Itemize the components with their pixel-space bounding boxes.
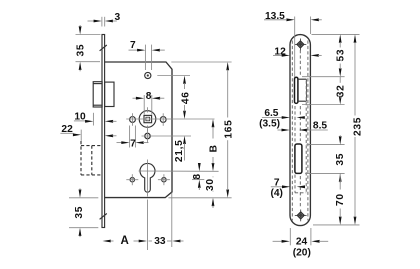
svg-text:35: 35 xyxy=(74,206,85,219)
svg-text:24: 24 xyxy=(296,237,308,248)
svg-text:235: 235 xyxy=(352,117,363,136)
svg-text:8: 8 xyxy=(192,173,203,179)
svg-text:35: 35 xyxy=(75,44,86,57)
svg-text:7: 7 xyxy=(130,40,136,51)
svg-text:46: 46 xyxy=(181,91,192,104)
svg-text:8.5: 8.5 xyxy=(313,121,327,132)
svg-text:7: 7 xyxy=(130,138,136,149)
svg-text:32: 32 xyxy=(335,85,346,98)
svg-text:B: B xyxy=(209,144,220,152)
svg-text:(3.5): (3.5) xyxy=(259,118,280,129)
svg-text:(4): (4) xyxy=(270,188,282,199)
svg-text:53: 53 xyxy=(336,49,347,62)
svg-text:3: 3 xyxy=(114,12,120,23)
svg-text:30: 30 xyxy=(205,178,216,191)
svg-text:70: 70 xyxy=(335,193,346,206)
svg-text:A: A xyxy=(121,235,129,247)
svg-text:(20): (20) xyxy=(293,247,311,258)
svg-text:33: 33 xyxy=(154,236,166,247)
svg-text:21,5: 21,5 xyxy=(174,139,185,162)
svg-text:8: 8 xyxy=(146,91,152,102)
svg-text:35: 35 xyxy=(335,153,346,166)
svg-text:165: 165 xyxy=(223,120,234,139)
